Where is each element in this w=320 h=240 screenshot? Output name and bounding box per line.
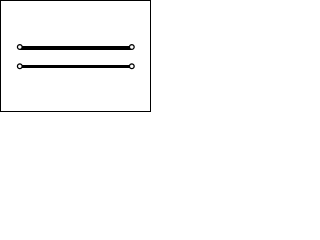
- terminal T2 (top-right open node): [129, 45, 134, 50]
- terminal T3 (bottom-left open node): [17, 64, 22, 69]
- terminal T1 (top-left open node): [17, 45, 22, 50]
- terminal T4 (bottom-right open node): [129, 64, 134, 69]
- wire W2 (bottom conductor): [20, 65, 131, 68]
- wire W1 (top conductor): [20, 46, 131, 50]
